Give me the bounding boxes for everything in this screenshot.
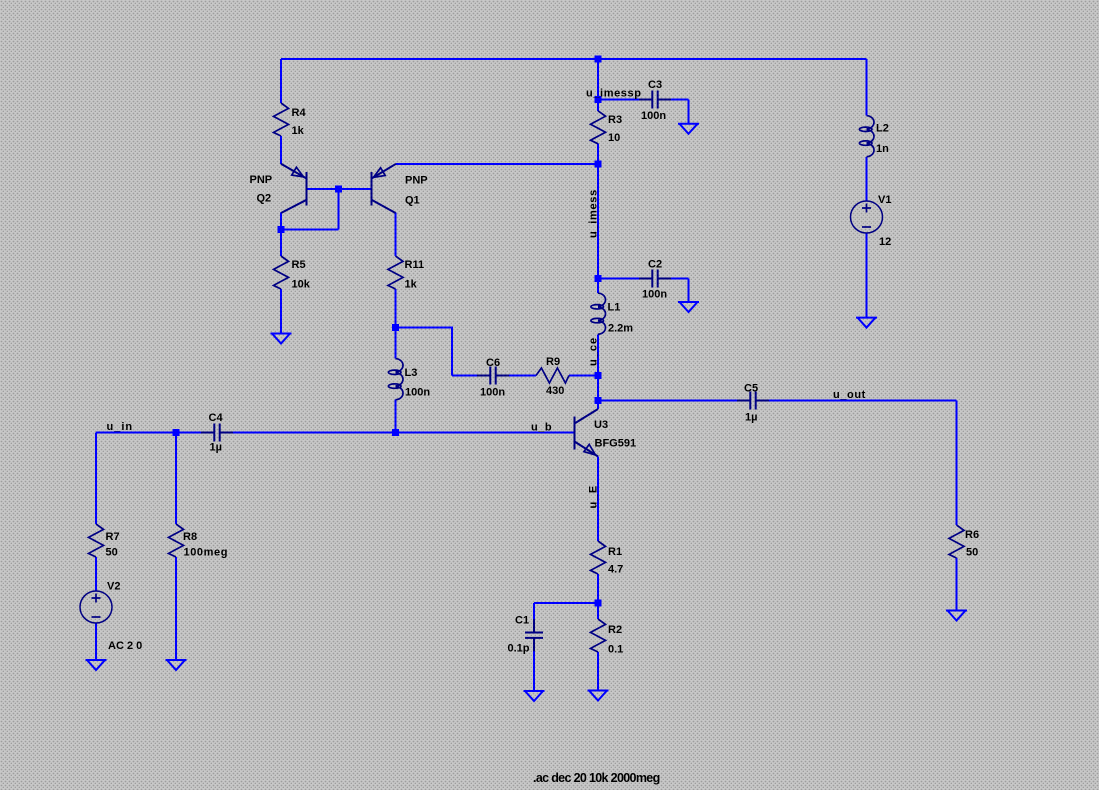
svg-text:100n: 100n: [480, 387, 505, 399]
svg-text:R1: R1: [608, 546, 622, 558]
svg-text:Q1: Q1: [405, 195, 420, 207]
svg-text:R8: R8: [183, 531, 197, 543]
svg-text:L3: L3: [405, 367, 418, 379]
svg-text:12: 12: [879, 236, 891, 248]
svg-text:50: 50: [966, 547, 978, 559]
svg-text:R7: R7: [106, 531, 120, 543]
svg-text:100n: 100n: [641, 110, 666, 122]
svg-text:PNP: PNP: [405, 175, 428, 187]
svg-text:Q2: Q2: [257, 193, 272, 205]
svg-text:C3: C3: [648, 79, 662, 91]
svg-text:100meg: 100meg: [184, 547, 229, 559]
svg-text:BFG591: BFG591: [595, 438, 637, 450]
svg-text:1k: 1k: [405, 279, 418, 291]
svg-text:10: 10: [608, 132, 620, 144]
svg-text:u_b: u_b: [531, 422, 552, 434]
svg-text:u_ce: u_ce: [588, 337, 600, 366]
svg-text:R3: R3: [608, 114, 622, 126]
svg-text:L1: L1: [608, 302, 621, 314]
svg-text:100n: 100n: [642, 289, 667, 301]
svg-text:R9: R9: [546, 356, 560, 368]
svg-text:L2: L2: [876, 123, 889, 135]
svg-text:u_out: u_out: [833, 389, 866, 401]
svg-text:R4: R4: [292, 107, 307, 119]
svg-text:R6: R6: [965, 529, 979, 541]
svg-text:R5: R5: [292, 259, 306, 271]
svg-text:2.2m: 2.2m: [608, 323, 633, 335]
svg-text:u_imess: u_imess: [588, 189, 600, 238]
svg-text:U3: U3: [594, 419, 608, 431]
svg-text:C2: C2: [648, 259, 662, 271]
svg-text:u_E: u_E: [588, 484, 600, 508]
svg-text:C6: C6: [486, 357, 500, 369]
svg-text:100n: 100n: [405, 387, 430, 399]
svg-text:10k: 10k: [292, 279, 311, 291]
svg-text:1µ: 1µ: [210, 442, 222, 454]
svg-text:u_imessp: u_imessp: [586, 88, 642, 100]
svg-text:AC 2 0: AC 2 0: [108, 640, 142, 652]
svg-text:1n: 1n: [876, 143, 889, 155]
svg-text:0.1p: 0.1p: [508, 643, 530, 655]
svg-text:C4: C4: [209, 412, 224, 424]
svg-text:C1: C1: [515, 615, 529, 627]
svg-text:PNP: PNP: [250, 174, 273, 186]
svg-text:1k: 1k: [292, 125, 305, 137]
svg-text:R2: R2: [608, 624, 622, 636]
svg-text:R11: R11: [405, 259, 425, 271]
svg-text:1µ: 1µ: [745, 412, 757, 424]
svg-text:u_in: u_in: [107, 421, 134, 433]
svg-text:430: 430: [546, 385, 564, 397]
svg-text:V1: V1: [878, 194, 891, 206]
svg-text:50: 50: [106, 547, 118, 559]
svg-text:4.7: 4.7: [608, 564, 623, 576]
svg-text:0.1: 0.1: [608, 644, 623, 656]
svg-text:.ac dec 20 10k 2000meg: .ac dec 20 10k 2000meg: [533, 771, 660, 785]
svg-text:C5: C5: [744, 383, 758, 395]
svg-text:V2: V2: [107, 581, 120, 593]
